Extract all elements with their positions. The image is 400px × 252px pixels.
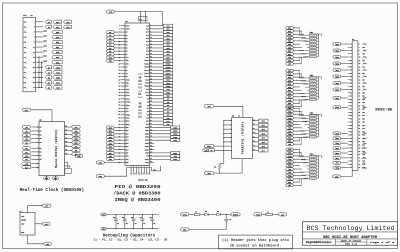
svg-text:D2: D2 <box>25 156 27 158</box>
svg-text:_/DB6: _/DB6 <box>362 83 367 85</box>
J2 parity net oval <box>333 97 341 100</box>
svg-text:20: 20 <box>150 53 152 55</box>
svg-text:/RD: /RD <box>126 60 129 62</box>
resistor network RN3 <box>286 107 322 146</box>
svg-text:21: 21 <box>350 76 352 78</box>
svg-text:23: 23 <box>33 77 35 79</box>
wire SRST to U3 <box>214 145 232 147</box>
svg-text:1u: 1u <box>153 223 155 225</box>
svg-text:SRST: SRST <box>207 146 211 148</box>
svg-text:SC3: SC3 <box>288 80 291 82</box>
svg-text:GND: GND <box>21 232 24 234</box>
svg-text:7: 7 <box>230 141 231 143</box>
U2 left pins group 3 +3V BAT <box>21 162 39 169</box>
svg-text:SC7: SC7 <box>146 54 149 56</box>
svg-text:D12: D12 <box>166 124 169 126</box>
svg-text:26: 26 <box>359 83 361 85</box>
svg-text:16: 16 <box>359 66 361 68</box>
wire oscillator net <box>115 11 163 13</box>
svg-text:22: 22 <box>150 56 152 58</box>
svg-text:R1: R1 <box>214 167 216 169</box>
svg-text:11: 11 <box>350 60 352 62</box>
svg-text:49: 49 <box>118 102 120 104</box>
svg-text:13: 13 <box>350 63 352 65</box>
U2 right pins with net flags <box>65 126 81 157</box>
svg-text:3: 3 <box>34 27 35 29</box>
svg-text:C4: C4 <box>140 217 142 219</box>
ferrite bead L1 <box>266 213 273 215</box>
svg-text:BigDumbDinosaur: BigDumbDinosaur <box>306 241 333 244</box>
svg-text:/DACK @ 0BD3300: /DACK @ 0BD3300 <box>113 191 160 197</box>
svg-text:42: 42 <box>359 109 361 111</box>
svg-text:82: 82 <box>150 152 152 154</box>
svg-text:GND: GND <box>126 162 129 164</box>
svg-text:GND: GND <box>45 178 48 180</box>
svg-text:D6: D6 <box>126 51 128 53</box>
svg-text:AD2: AD2 <box>43 29 46 32</box>
svg-text:18: 18 <box>359 70 361 72</box>
svg-text:1: 1 <box>119 25 120 27</box>
svg-text:SD6: SD6 <box>288 47 291 49</box>
svg-text:30: 30 <box>150 69 152 71</box>
wire J1 pin row 4 <box>36 36 44 38</box>
svg-text:BAT: BAT <box>25 166 28 169</box>
svg-text:SC4: SC4 <box>146 44 149 46</box>
svg-text:GND2: GND2 <box>173 159 177 161</box>
ground label b <box>52 177 58 180</box>
header pin drops J3 (1) <box>130 166 150 175</box>
svg-text:GND: GND <box>288 60 291 62</box>
svg-text:GND: GND <box>362 151 365 153</box>
svg-text:10: 10 <box>150 37 152 39</box>
svg-text:47: 47 <box>118 98 120 100</box>
svg-text:SC2: SC2 <box>288 77 291 79</box>
bus vertical wire J1 lower rows b <box>41 62 43 88</box>
svg-text:SD5: SD5 <box>126 143 129 145</box>
svg-text:2: 2 <box>230 120 231 122</box>
IC U1 53C94 SCSI controller body <box>125 23 150 166</box>
svg-text:25: 25 <box>33 82 35 84</box>
wire junction down to capacitor C6 <box>225 214 227 219</box>
svg-text:VCC2: VCC2 <box>145 92 149 94</box>
svg-text:BCS Technology Limited: BCS Technology Limited <box>307 225 395 232</box>
svg-text:/CD: /CD <box>288 128 291 130</box>
svg-text:SDC0: SDC0 <box>126 117 130 119</box>
svg-text:Real-Time Clock (0BD0100): Real-Time Clock (0BD0100) <box>20 188 85 193</box>
net oval TPWR feed <box>254 213 262 216</box>
svg-text:28: 28 <box>150 66 152 68</box>
svg-text:GND: GND <box>362 47 365 49</box>
svg-text:SD0: SD0 <box>126 127 129 129</box>
svg-text:50: 50 <box>359 122 361 124</box>
capacitor C6 <box>224 218 228 220</box>
svg-text:30: 30 <box>359 89 361 91</box>
svg-text:1: 1 <box>131 166 132 168</box>
svg-text:48: 48 <box>359 118 361 120</box>
title divider 1 <box>303 231 398 233</box>
title cell divider b <box>366 239 368 245</box>
svg-text:SD7: SD7 <box>262 150 265 152</box>
net oval +3V from P1 <box>42 204 51 207</box>
capacitor C1 <box>113 214 119 229</box>
net flag pair row 13 <box>45 81 51 84</box>
svg-text:SD2: SD2 <box>262 129 265 131</box>
resistor network RN2 <box>286 69 322 108</box>
svg-text:74: 74 <box>359 161 361 163</box>
svg-text:G2: G2 <box>210 150 212 152</box>
svg-text:10: 10 <box>359 57 361 59</box>
connector J1 (expansion bus header) <box>23 18 36 92</box>
svg-text:TPW: TPW <box>288 57 291 59</box>
svg-text:/REQ: /REQ <box>288 134 292 136</box>
net flag pair row 8 <box>202 149 208 152</box>
svg-text:GND: GND <box>362 161 365 163</box>
fuse F1 <box>194 213 200 215</box>
U3 right pin wires and net flags <box>252 119 268 152</box>
svg-text:SDB4: SDB4 <box>173 140 177 142</box>
connector J2 SCSI-SE body <box>352 41 358 171</box>
svg-text:5: 5 <box>34 32 35 34</box>
svg-text:SC6: SC6 <box>146 51 149 53</box>
svg-text:A5: A5 <box>167 101 169 104</box>
svg-text:D1: D1 <box>205 211 207 213</box>
net flag triple row 2 <box>45 25 51 28</box>
svg-text:57: 57 <box>350 135 352 137</box>
U1 left pin stubs, numbers and names <box>118 25 130 164</box>
net flag pair row 11 <box>45 71 51 74</box>
svg-text:GND: GND <box>362 112 365 114</box>
svg-text:/REQ: /REQ <box>288 175 292 177</box>
svg-text:/SEL: /SEL <box>288 153 292 155</box>
svg-text:L1: L1 <box>267 211 269 213</box>
svg-text:6: 6 <box>150 31 151 33</box>
svg-text:54: 54 <box>359 128 361 130</box>
J2 pin rows <box>348 44 365 170</box>
svg-text:_/DBP: _/DBP <box>362 98 367 100</box>
svg-text:33: 33 <box>118 76 120 78</box>
svg-text:C3: C3 <box>131 217 133 219</box>
svg-text:56: 56 <box>359 131 361 133</box>
svg-text:SD2: SD2 <box>126 133 129 135</box>
svg-text:16: 16 <box>253 128 255 130</box>
svg-text:/DB3: /DB3 <box>335 63 339 65</box>
bus vertical wire U3 left <box>223 121 225 164</box>
resistor network RN1 <box>286 26 322 65</box>
svg-text:GND: GND <box>362 96 365 98</box>
svg-text:/REQ: /REQ <box>335 168 339 170</box>
wire J1 pin row 10 <box>36 66 44 68</box>
svg-text:IREQ @ 0BD3400: IREQ @ 0BD3400 <box>115 197 161 203</box>
wire J1 pin row 14 <box>36 86 44 88</box>
svg-text:TPW: TPW <box>288 137 291 139</box>
svg-text:/BSY: /BSY <box>126 89 130 91</box>
svg-text:SDB5: SDB5 <box>145 143 149 145</box>
svg-text:D5: D5 <box>126 48 128 50</box>
svg-text:+5V: +5V <box>288 144 291 146</box>
svg-text:41: 41 <box>350 109 352 111</box>
svg-text:D3: D3 <box>25 159 27 161</box>
svg-text:19: 19 <box>33 67 35 69</box>
svg-text:/SSEL: /SSEL <box>144 63 149 65</box>
svg-text:27: 27 <box>118 67 120 69</box>
svg-text:SC0: SC0 <box>288 70 291 72</box>
svg-text:C17: C17 <box>25 110 28 112</box>
U2 left pins group 2 with net flags <box>22 147 41 162</box>
svg-text:3: 3 <box>37 134 38 136</box>
wire J1 pin row 1 <box>36 21 44 23</box>
svg-text:GND: GND <box>362 102 365 104</box>
U1 right net flags upper rows <box>154 24 173 126</box>
svg-text:27: 27 <box>350 86 352 88</box>
wire header bus left drop <box>104 167 126 176</box>
svg-text:76: 76 <box>359 164 361 166</box>
svg-text:J2: J2 <box>352 38 354 41</box>
svg-text:4: 4 <box>139 166 140 168</box>
svg-text:D9: D9 <box>147 114 149 116</box>
svg-text:66: 66 <box>359 148 361 150</box>
svg-text:D1: D1 <box>25 152 27 154</box>
wire J1 pin row 6 <box>36 46 44 48</box>
svg-text:18: 18 <box>150 50 152 52</box>
svg-text:6: 6 <box>230 137 231 139</box>
wire crystal to U2 pin a <box>65 161 68 163</box>
wire bus to resistor R1 <box>220 162 224 164</box>
svg-text:55: 55 <box>118 111 120 113</box>
svg-text:SDC2: SDC2 <box>126 124 130 126</box>
wire C6 to ground run <box>189 221 226 230</box>
svg-text:SDB6: SDB6 <box>145 146 149 148</box>
svg-text:D12: D12 <box>146 124 149 126</box>
svg-text:D10: D10 <box>146 117 149 119</box>
svg-text:SC3: SC3 <box>146 41 149 43</box>
wire J1 pin row 8 <box>36 56 44 58</box>
svg-text:(1) Header pins that plug into: (1) Header pins that plug into <box>222 238 289 243</box>
junction dots J1 bus <box>38 57 42 88</box>
svg-text:2: 2 <box>150 24 151 26</box>
svg-text:SD5: SD5 <box>288 44 291 46</box>
diode D1 <box>205 213 208 216</box>
svg-text:/SCD: /SCD <box>145 79 149 81</box>
junction dot crystal left <box>140 11 141 12</box>
svg-text:/BSY: /BSY <box>335 138 339 140</box>
svg-text:1u: 1u <box>143 223 145 225</box>
net flag AD3 row 4 <box>52 35 62 38</box>
J2 upper data net ovals and wires <box>333 43 367 92</box>
wire TPWR to fuse F1 <box>189 213 194 215</box>
svg-text:18: 18 <box>253 119 255 121</box>
svg-text:51: 51 <box>350 125 352 127</box>
wire D1 to D2 <box>208 213 217 215</box>
svg-text:D2: D2 <box>40 155 42 157</box>
svg-text:54: 54 <box>150 107 152 109</box>
wire crystal drop left <box>139 12 141 23</box>
svg-text:53: 53 <box>350 128 352 130</box>
svg-text:_/DB0: _/DB0 <box>362 44 367 46</box>
svg-text:D8: D8 <box>147 111 149 113</box>
svg-text:RD2: RD2 <box>43 50 46 53</box>
svg-text:SDBP: SDBP <box>145 152 149 154</box>
svg-text:/IO: /IO <box>288 131 291 133</box>
svg-text:TPW: TPW <box>288 100 291 102</box>
connector P1 power <box>20 213 35 235</box>
svg-text:(USB): (USB) <box>21 219 26 221</box>
svg-text:9: 9 <box>37 159 38 161</box>
svg-text:SD4: SD4 <box>126 140 129 142</box>
net flag +5V for U3 <box>204 105 214 108</box>
svg-text:/BSY: /BSY <box>288 108 292 110</box>
svg-text:32: 32 <box>150 72 152 74</box>
junction dot R1 bottom <box>219 173 220 174</box>
U1 left net flags upper group (data/control bus) <box>106 31 120 63</box>
svg-text:70: 70 <box>359 154 361 156</box>
svg-text:31: 31 <box>118 73 120 75</box>
svg-text:37: 37 <box>118 82 120 84</box>
resistor R1 pull-down zigzag <box>218 163 221 173</box>
svg-text:D4: D4 <box>75 149 77 152</box>
svg-text:62: 62 <box>150 120 152 122</box>
svg-text:38: 38 <box>150 82 152 84</box>
svg-text:SDC1: SDC1 <box>126 121 130 123</box>
wire J1 pin row 5 <box>36 41 44 43</box>
svg-text:57: 57 <box>118 114 120 116</box>
capacitor C5 <box>150 214 156 229</box>
svg-text:2: 2 <box>133 166 134 168</box>
svg-text:20: 20 <box>359 73 361 75</box>
svg-text:24: 24 <box>150 59 152 61</box>
wire D2 to TRMPWR flag <box>220 213 231 215</box>
crystal Y1 <box>139 16 147 20</box>
svg-text:SCP: SCP <box>288 97 291 99</box>
svg-text:RN2: RN2 <box>310 74 313 77</box>
svg-text:GND: GND <box>362 128 365 130</box>
net flag SRST <box>204 145 214 148</box>
wire ground to R1 <box>214 172 220 174</box>
svg-text:A2: A2 <box>25 134 27 137</box>
svg-text:29: 29 <box>350 89 352 91</box>
capacitor C3 <box>131 214 137 229</box>
svg-text:GND: GND <box>46 244 49 246</box>
svg-text:64: 64 <box>359 144 361 146</box>
svg-text:D3: D3 <box>40 159 42 161</box>
wire J1 pin row 9 <box>36 61 44 63</box>
svg-text:86: 86 <box>150 158 152 160</box>
svg-text:17: 17 <box>33 62 35 64</box>
U1 left net flags lower group <box>106 126 120 161</box>
U2 left pins group 1 with net flags <box>22 126 41 145</box>
svg-text:14: 14 <box>359 63 361 65</box>
svg-text:/MSG: /MSG <box>335 153 339 155</box>
wire J1 pin row 11 <box>36 71 44 73</box>
svg-text:71: 71 <box>350 157 352 159</box>
svg-text:77: 77 <box>350 167 352 169</box>
svg-text:8: 8 <box>149 166 150 168</box>
ground net flag U3 <box>204 172 214 175</box>
svg-text:GND: GND <box>362 79 365 81</box>
svg-text:GND: GND <box>146 95 149 97</box>
svg-text:44: 44 <box>150 91 152 93</box>
J2 lower control net ovals and wires <box>333 132 367 170</box>
svg-text:17: 17 <box>253 124 255 126</box>
svg-text:31: 31 <box>350 92 352 94</box>
svg-text:GND2: GND2 <box>145 159 149 161</box>
svg-text:46: 46 <box>150 94 152 96</box>
ground net oval TERMPWR <box>180 228 189 231</box>
svg-text:_/REQ: _/REQ <box>362 167 367 169</box>
svg-text:60: 60 <box>150 117 152 119</box>
svg-text:21: 21 <box>65 137 67 139</box>
svg-text:43: 43 <box>350 112 352 114</box>
svg-text:/CD: /CD <box>288 169 291 171</box>
net oval +5V from P1 <box>42 222 50 225</box>
svg-text:GND: GND <box>362 122 365 124</box>
svg-text:D3: D3 <box>48 82 50 84</box>
svg-text:(1): (1) <box>153 169 156 171</box>
ground label a <box>43 177 49 180</box>
svg-text:A4: A4 <box>25 141 27 144</box>
svg-text:1: 1 <box>34 22 35 24</box>
svg-text:IGS: IGS <box>109 159 112 161</box>
svg-text:4: 4 <box>230 129 231 131</box>
svg-text:8: 8 <box>150 34 151 36</box>
svg-text:GND: GND <box>362 86 365 88</box>
svg-text:69: 69 <box>350 154 352 156</box>
capacitor C2 <box>122 214 128 229</box>
svg-text:SD0: SD0 <box>288 28 291 30</box>
wire +5V to U3 pin 20 <box>214 106 243 117</box>
svg-text:84: 84 <box>150 155 152 157</box>
wire J1 pin row 2 <box>36 26 44 28</box>
svg-text:20: 20 <box>238 116 240 118</box>
svg-text:A0: A0 <box>48 21 50 24</box>
svg-text:33: 33 <box>350 96 352 98</box>
svg-text:SD1: SD1 <box>126 130 129 132</box>
svg-text:/WR: /WR <box>126 63 129 65</box>
svg-text:52: 52 <box>150 104 152 106</box>
svg-text:/CD: /CD <box>335 163 338 165</box>
svg-text:60: 60 <box>359 138 361 140</box>
svg-text:SC1: SC1 <box>288 74 291 76</box>
svg-text:53: 53 <box>118 108 120 110</box>
J2 ground net oval <box>333 175 341 178</box>
svg-text:35: 35 <box>118 79 120 81</box>
svg-text:78: 78 <box>150 145 152 147</box>
svg-text:19: 19 <box>350 73 352 75</box>
svg-text:GND: GND <box>102 229 105 231</box>
svg-text:SCSI-SE: SCSI-SE <box>138 179 148 182</box>
svg-text:SCSI-SE: SCSI-SE <box>375 109 393 113</box>
svg-text:88: 88 <box>150 161 152 163</box>
svg-text:46: 46 <box>359 115 361 117</box>
svg-text:D2: D2 <box>48 77 50 79</box>
wire P1 top pin <box>28 206 43 213</box>
svg-text:37: 37 <box>350 102 352 104</box>
svg-text:/DB6: /DB6 <box>335 83 339 85</box>
svg-text:32: 32 <box>359 92 361 94</box>
svg-text:/SATN: /SATN <box>165 66 170 69</box>
J2 TERMPWR net oval <box>333 106 341 109</box>
title cell divider c <box>335 241 367 243</box>
wire clock to right pin row 1 <box>162 12 164 26</box>
svg-text:70: 70 <box>150 133 152 135</box>
svg-text:TPWR: TPWR <box>335 107 339 109</box>
svg-text:74: 74 <box>150 139 152 141</box>
svg-text:/RST: /RST <box>288 121 292 123</box>
svg-text:68: 68 <box>359 151 361 153</box>
svg-text:SD5: SD5 <box>262 142 265 144</box>
wire U2 ground drop a <box>45 176 47 181</box>
svg-text:D1: D1 <box>48 72 50 74</box>
svg-text:/CS: /CS <box>74 127 77 129</box>
